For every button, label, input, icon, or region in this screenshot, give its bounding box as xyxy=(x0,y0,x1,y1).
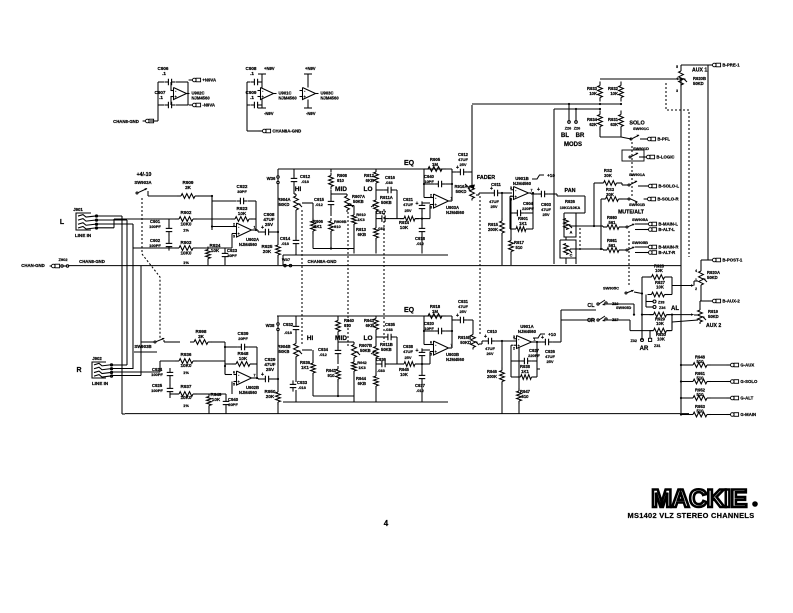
svg-text:CHAN-GND: CHAN-GND xyxy=(21,263,44,268)
svg-text:SW905A: SW905A xyxy=(632,217,648,222)
svg-text:+: + xyxy=(537,187,540,193)
svg-text:+: + xyxy=(456,165,459,171)
svg-text:10K0: 10K0 xyxy=(181,251,192,256)
svg-text:+10: +10 xyxy=(548,332,556,337)
svg-text:-N9V: -N9V xyxy=(306,111,316,116)
svg-text:50KD: 50KD xyxy=(279,202,290,207)
svg-text:W38: W38 xyxy=(266,323,275,328)
svg-text:B-ALT-R: B-ALT-R xyxy=(658,250,676,255)
svg-text:50KD: 50KD xyxy=(693,81,704,86)
svg-text:10K: 10K xyxy=(400,372,408,377)
svg-text:25V: 25V xyxy=(490,204,497,209)
svg-text:3: 3 xyxy=(510,186,512,190)
svg-text:LO: LO xyxy=(363,186,372,193)
svg-text:+N9V: +N9V xyxy=(264,66,275,71)
svg-text:.018: .018 xyxy=(284,330,293,335)
svg-text:5: 5 xyxy=(233,383,235,387)
svg-text:47UF: 47UF xyxy=(403,202,413,207)
svg-text:B-AUX-2: B-AUX-2 xyxy=(722,299,740,304)
svg-text:CL: CL xyxy=(587,303,595,309)
svg-text:+: + xyxy=(484,334,487,340)
svg-text:6KB: 6KB xyxy=(358,232,366,237)
svg-text:10K: 10K xyxy=(655,268,663,273)
svg-text:+N9VA: +N9VA xyxy=(202,78,216,83)
svg-text:R937: R937 xyxy=(181,384,192,389)
svg-text:1%: 1% xyxy=(183,228,189,233)
svg-text:.012: .012 xyxy=(416,241,425,246)
svg-text:100PF: 100PF xyxy=(149,224,161,229)
svg-text:.1: .1 xyxy=(250,95,254,100)
svg-text:C910: C910 xyxy=(487,329,498,334)
svg-text:R902: R902 xyxy=(181,210,192,215)
svg-text:CR: CR xyxy=(587,318,595,324)
svg-text:SW901B: SW901B xyxy=(629,202,645,207)
svg-text:B-MAIN-R: B-MAIN-R xyxy=(658,245,679,250)
svg-text:30K: 30K xyxy=(604,173,612,178)
svg-text:25V: 25V xyxy=(459,309,466,314)
svg-text:.1: .1 xyxy=(159,95,163,100)
svg-text:SW903B: SW903B xyxy=(134,344,151,349)
svg-text:.033: .033 xyxy=(385,327,394,332)
svg-text:3: 3 xyxy=(233,235,235,239)
svg-text:10PF: 10PF xyxy=(424,326,434,331)
svg-text:.012: .012 xyxy=(416,388,425,393)
svg-text:910: 910 xyxy=(328,373,336,378)
svg-text:C932: C932 xyxy=(283,322,294,327)
svg-text:50KB: 50KB xyxy=(381,200,392,205)
svg-text:B-SOLO-R: B-SOLO-R xyxy=(657,197,679,202)
svg-text:25V: 25V xyxy=(459,162,466,167)
svg-text:25V: 25V xyxy=(404,355,411,360)
svg-text:1K3: 1K3 xyxy=(358,365,366,370)
svg-text:7: 7 xyxy=(254,374,256,378)
svg-text:200K: 200K xyxy=(488,227,498,232)
svg-text:B-ALT-L: B-ALT-L xyxy=(658,227,675,232)
svg-text:.012: .012 xyxy=(315,202,324,207)
svg-text:B-SOLO-L: B-SOLO-L xyxy=(658,184,679,189)
svg-text:NJM4560: NJM4560 xyxy=(446,210,465,215)
svg-text:+: + xyxy=(261,225,264,231)
svg-text:50KD: 50KD xyxy=(456,189,467,194)
svg-text:B-MAIN-L: B-MAIN-L xyxy=(658,222,678,227)
svg-text:6KB: 6KB xyxy=(358,381,366,386)
svg-text:25V: 25V xyxy=(404,208,411,213)
svg-text:10K0: 10K0 xyxy=(181,222,192,227)
svg-text:.033: .033 xyxy=(385,180,394,185)
svg-text:1K3: 1K3 xyxy=(357,217,365,222)
svg-text:50KB: 50KB xyxy=(279,349,290,354)
svg-text:BL: BL xyxy=(561,133,569,139)
svg-text:1K1: 1K1 xyxy=(301,365,309,370)
svg-text:30PF: 30PF xyxy=(227,253,237,258)
svg-text:220PF: 220PF xyxy=(528,353,540,358)
svg-text:MODS: MODS xyxy=(564,142,582,148)
svg-text:63K: 63K xyxy=(610,122,618,127)
svg-text:4: 4 xyxy=(676,77,678,81)
svg-text:MID: MID xyxy=(335,186,347,193)
svg-text:50KB: 50KB xyxy=(360,348,371,353)
svg-text:NJM4560: NJM4560 xyxy=(279,96,298,101)
svg-text:CHAN8-GND: CHAN8-GND xyxy=(113,119,139,124)
svg-text:.033: .033 xyxy=(377,368,386,373)
svg-text:910: 910 xyxy=(337,178,345,183)
svg-text:.018: .018 xyxy=(301,179,310,184)
svg-text:.1: .1 xyxy=(250,71,254,76)
svg-text:R936: R936 xyxy=(181,352,192,357)
svg-text:-N9V: -N9V xyxy=(264,111,274,116)
svg-text:50KD: 50KD xyxy=(707,275,718,280)
svg-text:1M: 1M xyxy=(432,162,438,167)
svg-text:NJM4560: NJM4560 xyxy=(513,181,532,186)
svg-text:SW903A: SW903A xyxy=(134,180,151,185)
svg-text:10K: 10K xyxy=(656,285,664,290)
svg-text:B-PFL: B-PFL xyxy=(657,137,670,142)
svg-text:AUX 2: AUX 2 xyxy=(706,323,721,329)
svg-text:Z26: Z26 xyxy=(574,127,581,131)
svg-text:NJM4560: NJM4560 xyxy=(192,96,211,101)
svg-text:+: + xyxy=(416,348,419,354)
svg-text:W37: W37 xyxy=(282,257,291,262)
svg-text:1K1: 1K1 xyxy=(519,221,527,226)
svg-text:1%: 1% xyxy=(183,260,189,265)
svg-text:G-SOLO: G-SOLO xyxy=(740,379,758,384)
svg-text:6KB: 6KB xyxy=(366,323,374,328)
svg-text:J902: J902 xyxy=(92,356,102,361)
svg-text:25V: 25V xyxy=(265,222,274,227)
svg-text:1: 1 xyxy=(254,226,256,230)
svg-text:20K: 20K xyxy=(266,394,275,399)
svg-text:.018: .018 xyxy=(281,241,290,246)
svg-text:10K: 10K xyxy=(211,248,220,253)
svg-text:200K: 200K xyxy=(487,374,497,379)
svg-text:EQ: EQ xyxy=(404,307,415,314)
svg-text:R926: R926 xyxy=(565,199,576,204)
svg-text:26V: 26V xyxy=(486,351,493,356)
svg-text:910: 910 xyxy=(344,323,352,328)
svg-text:6: 6 xyxy=(233,371,235,375)
svg-text:100PF: 100PF xyxy=(149,243,161,248)
svg-text:B-LOGIC: B-LOGIC xyxy=(656,155,674,160)
svg-text:+4/-10: +4/-10 xyxy=(137,172,152,178)
svg-text:-N9VA: -N9VA xyxy=(202,103,215,108)
svg-text:SW905B: SW905B xyxy=(632,240,648,245)
svg-text:G-MAIN: G-MAIN xyxy=(740,412,756,417)
svg-text:R903: R903 xyxy=(181,240,192,245)
svg-text:A: A xyxy=(570,231,573,235)
svg-text:30K: 30K xyxy=(606,192,614,197)
svg-text:10K: 10K xyxy=(239,356,248,361)
svg-text:B-PRE-1: B-PRE-1 xyxy=(722,63,740,68)
svg-text:62K: 62K xyxy=(589,122,597,127)
svg-text:BR: BR xyxy=(576,133,585,139)
svg-text:+: + xyxy=(541,335,544,341)
svg-text:6KB: 6KB xyxy=(366,178,374,183)
svg-text:2: 2 xyxy=(513,346,515,350)
svg-text:Z26: Z26 xyxy=(565,127,572,131)
svg-text:R: R xyxy=(76,367,81,374)
svg-text:20PF: 20PF xyxy=(228,402,238,407)
svg-text:MACKIE: MACKIE xyxy=(651,485,747,513)
svg-text:2: 2 xyxy=(695,287,697,291)
svg-text:1K1: 1K1 xyxy=(521,369,529,374)
svg-text:10K: 10K xyxy=(657,337,665,342)
svg-text:5: 5 xyxy=(676,65,678,69)
svg-text:2: 2 xyxy=(233,223,235,227)
svg-text:CHAN8-GND: CHAN8-GND xyxy=(79,259,105,264)
svg-text:10K: 10K xyxy=(400,225,409,230)
svg-text:LINE IN: LINE IN xyxy=(75,233,92,238)
svg-text:C917: C917 xyxy=(376,210,387,215)
svg-text:+: + xyxy=(456,313,459,319)
svg-text:10PF: 10PF xyxy=(424,179,434,184)
svg-text:SW901C: SW901C xyxy=(633,126,649,131)
svg-text:510: 510 xyxy=(516,245,524,250)
svg-text:.018: .018 xyxy=(298,385,307,390)
svg-text:+: + xyxy=(261,372,264,378)
svg-text:6: 6 xyxy=(430,341,432,345)
svg-text:100PF: 100PF xyxy=(151,372,163,377)
svg-text:FADER: FADER xyxy=(477,175,495,181)
svg-text:AUX 1: AUX 1 xyxy=(692,68,707,74)
svg-text:20K: 20K xyxy=(263,249,272,254)
svg-text:3: 3 xyxy=(430,206,432,210)
svg-text:J901: J901 xyxy=(73,207,83,212)
svg-text:AL: AL xyxy=(671,306,679,312)
svg-text:NJM4560: NJM4560 xyxy=(446,357,465,362)
svg-text:50KB: 50KB xyxy=(353,199,364,204)
svg-text:20PF: 20PF xyxy=(238,336,248,341)
svg-text:50KD: 50KD xyxy=(708,314,719,319)
svg-text:510: 510 xyxy=(522,394,530,399)
svg-text:C: C xyxy=(570,254,573,258)
svg-text:MS1402 VLZ STEREO CHANNELS: MS1402 VLZ STEREO CHANNELS xyxy=(628,511,755,520)
svg-text:7: 7 xyxy=(531,189,533,193)
svg-text:SW905C: SW905C xyxy=(603,286,619,291)
svg-text:1M: 1M xyxy=(432,309,438,314)
svg-text:NJM4560: NJM4560 xyxy=(239,242,258,247)
svg-text:4: 4 xyxy=(384,519,389,528)
svg-text:.1: .1 xyxy=(162,71,166,76)
svg-text:5: 5 xyxy=(430,353,432,357)
svg-text:G-AUX: G-AUX xyxy=(740,363,754,368)
svg-text:1%: 1% xyxy=(183,403,189,408)
svg-text:10K: 10K xyxy=(610,91,618,96)
svg-text:+N9V: +N9V xyxy=(305,66,316,71)
svg-text:25V: 25V xyxy=(546,359,553,364)
svg-text:HI: HI xyxy=(307,335,314,342)
svg-text:10K: 10K xyxy=(656,321,664,326)
svg-text:CHAN8A-GND: CHAN8A-GND xyxy=(308,259,337,264)
svg-text:EQ: EQ xyxy=(404,160,415,167)
svg-text:25V: 25V xyxy=(542,212,549,217)
svg-text:MID: MID xyxy=(335,335,347,342)
svg-text:CHAN8A-GND: CHAN8A-GND xyxy=(272,129,301,134)
svg-text:2K: 2K xyxy=(185,185,192,190)
svg-text:W36: W36 xyxy=(267,176,276,181)
svg-text:3: 3 xyxy=(513,335,515,339)
svg-text:10K: 10K xyxy=(238,211,247,216)
svg-text:AR: AR xyxy=(640,346,649,352)
svg-text:10KC/10KA: 10KC/10KA xyxy=(560,206,581,210)
svg-text:SW901A: SW901A xyxy=(629,172,645,177)
svg-text:LINE IN: LINE IN xyxy=(92,381,109,386)
svg-text:Z34: Z34 xyxy=(659,306,666,310)
svg-text:4: 4 xyxy=(695,269,697,273)
svg-text:PAN: PAN xyxy=(565,188,576,194)
svg-text:30PF: 30PF xyxy=(237,189,247,194)
svg-text:47UF: 47UF xyxy=(403,349,413,354)
svg-text:MUTE/ALT: MUTE/ALT xyxy=(618,210,645,216)
svg-text:NJM4560: NJM4560 xyxy=(321,96,340,101)
svg-text:50KD: 50KD xyxy=(460,340,471,345)
svg-text:NJM4560: NJM4560 xyxy=(239,390,258,395)
svg-text:+: + xyxy=(490,186,493,192)
svg-text:+: + xyxy=(416,201,419,207)
svg-text:L: L xyxy=(60,219,65,226)
svg-text:.012: .012 xyxy=(319,352,328,357)
svg-text:2: 2 xyxy=(430,194,432,198)
svg-text:G-ALT: G-ALT xyxy=(740,396,753,401)
svg-text:Z32: Z32 xyxy=(630,339,637,343)
svg-text:HI: HI xyxy=(295,186,302,193)
svg-text:LO: LO xyxy=(363,335,372,342)
svg-text:100PF: 100PF xyxy=(151,388,163,393)
svg-text:NJM4560: NJM4560 xyxy=(518,329,537,334)
svg-text:25V: 25V xyxy=(266,367,275,372)
svg-text:1%: 1% xyxy=(183,370,189,375)
svg-text:Z33: Z33 xyxy=(658,301,665,305)
svg-text:Z31: Z31 xyxy=(654,344,661,348)
svg-text:2K: 2K xyxy=(198,334,205,339)
svg-text:3: 3 xyxy=(676,89,678,93)
svg-text:50KB: 50KB xyxy=(381,347,392,352)
svg-text:10K: 10K xyxy=(212,397,221,402)
svg-text:SW905D: SW905D xyxy=(616,306,631,310)
svg-text:Z902: Z902 xyxy=(58,257,68,262)
svg-text:10K: 10K xyxy=(589,91,597,96)
svg-text:B-POST-1: B-POST-1 xyxy=(722,258,742,263)
svg-text:910: 910 xyxy=(334,224,341,229)
